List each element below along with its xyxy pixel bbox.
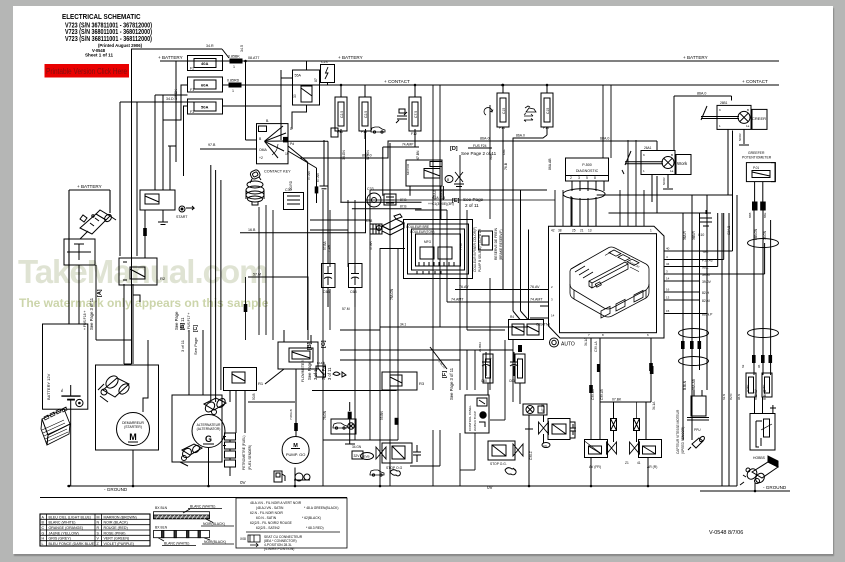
recirculation curl icon xyxy=(484,108,493,115)
battery isometric drawing xyxy=(41,407,70,445)
small pump icon xyxy=(331,128,341,137)
svg-text:1a: 1a xyxy=(670,169,674,173)
ECU right pin stubs and labels xyxy=(664,247,713,317)
wire into key left xyxy=(246,139,257,141)
capacitor C3 xyxy=(322,233,336,307)
wire hobbs drops xyxy=(683,195,741,486)
svg-text:M: M xyxy=(129,432,137,442)
fuse C15 #5 xyxy=(541,85,553,135)
svg-text:TakeManual.com: TakeManual.com xyxy=(18,253,267,290)
capacitor by coil xyxy=(570,424,576,435)
wire mid-left horizontals xyxy=(96,95,188,364)
svg-text:86A.AB: 86A.AB xyxy=(692,379,696,390)
svg-text:36A.R: 36A.R xyxy=(683,230,687,240)
svg-text:OMA: OMA xyxy=(259,148,267,152)
svg-text:14: 14 xyxy=(666,277,670,281)
svg-text:See Page: See Page xyxy=(174,311,179,330)
svg-text:67.AB: 67.AB xyxy=(316,173,320,182)
svg-text:BX BLN: BX BLN xyxy=(155,526,168,530)
svg-text:BATTERY 12V: BATTERY 12V xyxy=(46,373,51,400)
svg-text:1: 1 xyxy=(232,89,234,93)
svg-text:8: 8 xyxy=(602,333,604,337)
[E] see page label xyxy=(428,196,484,208)
inline connector ellipse right xyxy=(748,329,779,338)
svg-text:ROUGE (RED): ROUGE (RED) xyxy=(104,526,128,530)
svg-text:START: START xyxy=(176,215,188,219)
svg-text:86B.GN: 86B.GN xyxy=(754,228,758,240)
svg-text:C61: C61 xyxy=(509,379,515,383)
wire +BATTERY bus xyxy=(160,60,779,62)
svg-text:STOP O.G.: STOP O.G. xyxy=(490,462,507,466)
svg-text:D: D xyxy=(290,127,293,131)
safety contact box xyxy=(64,239,95,265)
relay box K7 xyxy=(406,160,443,220)
small labels near pot xyxy=(741,364,761,368)
svg-text:M: M xyxy=(97,515,100,519)
wire alternator ground xyxy=(208,448,210,486)
svg-text:H: H xyxy=(42,537,45,541)
fuse C7.5 #3 xyxy=(409,89,421,139)
relay K2 above pump xyxy=(265,330,318,384)
svg-text:21: 21 xyxy=(580,229,584,233)
svg-text:7: 7 xyxy=(588,333,590,337)
svg-text:74.AMT: 74.AMT xyxy=(451,298,464,302)
wire 74AMT xyxy=(447,298,549,303)
svg-text:32V: 32V xyxy=(354,454,361,458)
svg-text:S: S xyxy=(97,531,100,535)
svg-text:C39.LB: C39.LB xyxy=(600,389,604,400)
wire mid rails xyxy=(258,207,260,335)
svg-text:The watermark only appears on: The watermark only appears on this sampl… xyxy=(19,296,269,310)
svg-text:+ BATTERY: + BATTERY xyxy=(77,184,102,189)
wire pump top xyxy=(295,369,297,437)
svg-text:C6: C6 xyxy=(543,444,547,448)
svg-text:FUS F24: FUS F24 xyxy=(473,144,487,148)
svg-text:3: 3 xyxy=(578,176,580,180)
svg-text:C10: C10 xyxy=(698,233,704,237)
svg-text:76.AV: 76.AV xyxy=(530,285,540,289)
svg-text:CAPTEUR VITESSE MOTEUR: CAPTEUR VITESSE MOTEUR xyxy=(676,409,680,454)
svg-text:47.BN: 47.BN xyxy=(416,150,420,160)
svg-text:C2.5: C2.5 xyxy=(364,111,368,118)
svg-text:ORANGE (ORANGE): ORANGE (ORANGE) xyxy=(49,526,84,530)
svg-text:CREER: CREER xyxy=(752,116,766,121)
svg-text:0.85RD: 0.85RD xyxy=(227,79,240,83)
svg-text:See Page 3 of 11: See Page 3 of 11 xyxy=(89,297,94,330)
svg-text:34.GN: 34.GN xyxy=(352,445,362,449)
wire lower horizontals xyxy=(340,349,513,351)
X-circle box solenoid xyxy=(523,404,547,429)
wire F1 row to link xyxy=(223,84,230,86)
svg-text:- GROUND: - GROUND xyxy=(763,485,787,490)
svg-text:PPU: PPU xyxy=(694,428,701,432)
wire diag merge left of ECU xyxy=(513,138,529,320)
start relay cluster xyxy=(140,190,194,225)
wire left battery feed xyxy=(69,189,110,191)
car monitor box xyxy=(331,419,356,434)
svg-text:B: B xyxy=(259,137,262,141)
svg-text:5: 5 xyxy=(586,176,588,180)
svg-text:V: V xyxy=(97,537,100,541)
svg-text:BLEU CIEL (LIGHT BLUE): BLEU CIEL (LIGHT BLUE) xyxy=(49,515,92,519)
relay R2 xyxy=(119,258,166,295)
svg-text:CONTACT KEY: CONTACT KEY xyxy=(264,170,291,174)
wire solenoid to contact box xyxy=(80,231,88,239)
svg-text:3: 3 xyxy=(551,298,553,302)
diagonal wire to F xyxy=(430,347,447,370)
svg-text:F14: F14 xyxy=(499,126,505,130)
svg-text:R2: R2 xyxy=(160,276,166,281)
svg-text:B.: B. xyxy=(266,119,269,123)
svg-text:FLOWMETER: FLOWMETER xyxy=(301,360,305,382)
svg-text:R4: R4 xyxy=(510,315,514,319)
svg-text:K: K xyxy=(719,108,721,112)
svg-text:3 of 11: 3 of 11 xyxy=(327,367,332,380)
svg-text:77.B: 77.B xyxy=(459,243,463,250)
svg-text:40A: 40A xyxy=(201,61,208,66)
brake reservoir box xyxy=(479,227,504,260)
svg-text:26A1: 26A1 xyxy=(644,146,652,150)
svg-text:CONTROL PANEL: CONTROL PANEL xyxy=(468,405,472,431)
resistor RW2 xyxy=(762,373,772,397)
svg-text:See Page: See Page xyxy=(463,197,484,202)
wire 57M horizontal xyxy=(248,277,308,340)
svg-text:NOIR(BLACK): NOIR(BLACK) xyxy=(204,540,226,544)
svg-text:NOIR(BLACK): NOIR(BLACK) xyxy=(203,522,225,526)
svg-text:47.BR: 47.BR xyxy=(369,240,373,250)
svg-text:COULEUR(TON): COULEUR(TON) xyxy=(410,230,434,234)
svg-text:87.B: 87.B xyxy=(400,205,407,209)
wire starter top feed xyxy=(143,340,148,412)
svg-text:3 of 11: 3 of 11 xyxy=(180,339,185,352)
svg-text:V723 (S/N 368111001 - 36811200: V723 (S/N 368111001 - 368112000) xyxy=(65,36,152,43)
svg-text:See Page: See Page xyxy=(307,361,312,380)
starter box xyxy=(96,365,159,450)
solenoid AR R xyxy=(625,440,662,470)
svg-text:(4-WIRE POSITION): (4-WIRE POSITION) xyxy=(264,547,294,551)
svg-text:78A.GN: 78A.GN xyxy=(390,288,394,300)
svg-text:R75K: R75K xyxy=(762,384,766,392)
svg-text:L: L xyxy=(42,542,44,546)
greefer potentiometer xyxy=(742,151,775,218)
svg-text:+ BATTERY: + BATTERY xyxy=(338,55,363,60)
icons speed xyxy=(333,372,346,377)
svg-text:1a: 1a xyxy=(746,124,750,128)
svg-text:15: 15 xyxy=(666,309,670,313)
svg-text:* 68.3 RED): * 68.3 RED) xyxy=(306,526,324,530)
wire +CONTACT bus xyxy=(241,84,779,86)
legend top rule xyxy=(40,497,347,499)
relay R3 box xyxy=(382,372,425,390)
svg-text:86A-0: 86A-0 xyxy=(362,154,372,158)
svg-text:25: 25 xyxy=(572,229,576,233)
alternator circle G xyxy=(192,415,225,448)
svg-text:1: 1 xyxy=(643,169,645,173)
svg-text:AUTO: AUTO xyxy=(561,342,575,348)
svg-text:BLANC (WHITE): BLANC (WHITE) xyxy=(164,542,189,546)
svg-text:C7.5: C7.5 xyxy=(414,111,418,118)
svg-text:+ BATTERY: + BATTERY xyxy=(683,55,708,60)
svg-text:Sheet 1 of 11: Sheet 1 of 11 xyxy=(85,53,114,58)
snail icon xyxy=(505,468,516,475)
svg-text:Work: Work xyxy=(677,161,688,166)
svg-text:ROSE (PINK): ROSE (PINK) xyxy=(104,531,126,535)
ground stub mid xyxy=(345,402,355,444)
wire mid drops xyxy=(529,352,651,487)
fuse F2 40A xyxy=(188,56,223,71)
svg-text:N: N xyxy=(97,521,100,525)
svg-text:[A]: [A] xyxy=(97,289,103,297)
wire key to capacitor xyxy=(288,140,328,142)
ECU inner frame xyxy=(560,234,657,333)
svg-text:AR (R): AR (R) xyxy=(647,465,657,469)
svg-text:C60: C60 xyxy=(481,379,487,383)
svg-text:* 48.A GREEN(BLACK): * 48.A GREEN(BLACK) xyxy=(304,506,338,510)
svg-text:1: 1 xyxy=(650,229,652,233)
wire 86A.0 to creer lamp xyxy=(674,92,732,152)
wire A drop xyxy=(95,265,97,340)
svg-text:V723 (S/N 368011001 - 36801200: V723 (S/N 368011001 - 368012000) xyxy=(65,29,152,36)
svg-text:B: B xyxy=(42,521,45,525)
starter motor circle M xyxy=(117,413,150,446)
svg-text:3 of 11: 3 of 11 xyxy=(180,317,185,330)
svg-text:GREEFER: GREEFER xyxy=(748,151,765,155)
svg-text:GRIS (GREY): GRIS (GREY) xyxy=(49,537,71,541)
svg-text:C15: C15 xyxy=(502,108,506,114)
svg-text:F19: F19 xyxy=(361,130,367,134)
svg-text:38: 38 xyxy=(558,229,562,233)
wire battery bus drop to key xyxy=(245,61,247,140)
svg-text:JAUNE (YELLOW): JAUNE (YELLOW) xyxy=(49,531,79,535)
svg-text:F1: F1 xyxy=(190,88,194,92)
svg-text:A: A xyxy=(42,515,45,519)
horn isometric icon xyxy=(740,456,778,485)
svg-text:+: + xyxy=(518,357,520,361)
svg-text:MFG: MFG xyxy=(424,240,432,244)
contact key switch box xyxy=(257,119,295,174)
fusible link on contact bus xyxy=(227,79,241,94)
svg-text:86A.0: 86A.0 xyxy=(697,92,706,96)
wire ground bus xyxy=(67,485,737,487)
svg-text:82.H: 82.H xyxy=(702,291,710,295)
svg-text:57.M: 57.M xyxy=(342,307,350,311)
svg-text:86A-0: 86A-0 xyxy=(480,137,490,141)
fusible link to R2 xyxy=(143,228,147,236)
fuse F1 60A xyxy=(188,77,223,92)
svg-text:455A.B: 455A.B xyxy=(440,190,444,200)
svg-text:76.AV: 76.AV xyxy=(459,285,469,289)
svg-text:COULEUR B FIBER COLOR(F): COULEUR B FIBER COLOR(F) xyxy=(473,227,477,272)
svg-text:Z1: Z1 xyxy=(625,461,629,465)
svg-text:X08: X08 xyxy=(240,537,246,541)
striped wire sample 2 xyxy=(154,526,235,546)
svg-text:[B]: [B] xyxy=(307,342,313,350)
E14 box xyxy=(316,361,326,377)
svg-text:HOBBS: HOBBS xyxy=(753,456,766,460)
svg-text:C6L: C6L xyxy=(502,149,506,155)
[F] see page label xyxy=(442,367,454,400)
svg-text:See Page: See Page xyxy=(193,337,198,355)
svg-text:C15: C15 xyxy=(546,108,550,114)
svg-text:R1: R1 xyxy=(258,381,264,386)
svg-text:C30: C30 xyxy=(285,188,292,192)
svg-text:34.1: 34.1 xyxy=(400,323,406,327)
svg-text:82.M: 82.M xyxy=(702,299,710,303)
tiny box 32V xyxy=(352,451,363,459)
[B] see page vertical label xyxy=(301,342,318,382)
svg-text:F12: F12 xyxy=(411,132,417,136)
svg-text:42: 42 xyxy=(551,229,555,233)
[D] see page label xyxy=(450,144,497,156)
svg-text:[F]: [F] xyxy=(442,371,448,378)
solenoid assembly far left xyxy=(488,441,523,466)
svg-text:B: B xyxy=(447,178,450,182)
legend notes block xyxy=(236,498,347,551)
bowtie valve main xyxy=(539,415,549,434)
svg-text:BLEU FONCE (DARK BLUE): BLEU FONCE (DARK BLUE) xyxy=(49,542,96,546)
svg-text:Pd: Pd xyxy=(290,142,294,146)
wire F3 row right xyxy=(223,106,282,140)
svg-text:MARRON (BROWN): MARRON (BROWN) xyxy=(104,515,137,519)
pump motor circle xyxy=(282,437,309,464)
wire drops from contact bus xyxy=(341,85,547,97)
svg-text:C2.5: C2.5 xyxy=(340,111,344,118)
svg-text:08.AT7: 08.AT7 xyxy=(248,56,259,60)
svg-text:F2: F2 xyxy=(190,67,194,71)
wire battery to ground xyxy=(70,400,72,486)
coil box xyxy=(548,419,575,440)
svg-text:C66: C66 xyxy=(323,290,330,294)
svg-text:62.N: 62.N xyxy=(722,394,726,400)
svg-text:BOBCAT: BOBCAT xyxy=(629,260,641,269)
svg-text:E14: E14 xyxy=(317,361,323,365)
svg-text:34: 34 xyxy=(666,262,670,266)
svg-text:34.1A: 34.1A xyxy=(652,401,656,410)
svg-text:86A.AB: 86A.AB xyxy=(548,158,552,170)
right rail labels xyxy=(683,228,767,400)
svg-text:VERT (GREEN): VERT (GREEN) xyxy=(104,537,130,541)
horn symbol xyxy=(698,210,712,237)
svg-text:0V: 0V xyxy=(487,485,494,490)
connector terminals black xyxy=(649,341,772,371)
capacitor by valve xyxy=(413,445,421,462)
hobbs hourmeter box xyxy=(750,397,776,450)
svg-text:0.85BK: 0.85BK xyxy=(228,55,240,59)
svg-text:RESERVE DE FREIN: RESERVE DE FREIN xyxy=(494,227,498,260)
svg-text:BLANC (WHITE): BLANC (WHITE) xyxy=(49,521,76,525)
wire pump ground xyxy=(294,468,296,487)
wire long rails mid-left xyxy=(145,95,221,402)
svg-text:1: 1 xyxy=(719,124,721,128)
svg-text:62.N - FIL NOIR NOIR: 62.N - FIL NOIR NOIR xyxy=(250,511,283,515)
svg-text:2 of 11: 2 of 11 xyxy=(465,203,479,208)
svg-text:13: 13 xyxy=(666,296,670,300)
seat heater icon xyxy=(524,106,536,122)
wire fuse bottom drops xyxy=(340,129,547,290)
hourglass symbol 1 xyxy=(611,419,617,431)
svg-text:475A.B: 475A.B xyxy=(433,190,437,200)
fusible link on battery bus xyxy=(228,55,242,70)
svg-text:2: 2 xyxy=(570,176,572,180)
alternator iso top xyxy=(204,398,226,410)
wire starter down to ground xyxy=(132,450,134,486)
right rails xyxy=(646,176,771,440)
svg-text:76.B: 76.B xyxy=(504,162,508,170)
wire 34.1 long xyxy=(380,323,550,328)
svg-text:K: K xyxy=(643,153,645,157)
svg-text:86A.0: 86A.0 xyxy=(516,134,525,138)
wire 57.M mid xyxy=(380,248,404,250)
starter isometric xyxy=(103,378,129,397)
svg-text:55.BN: 55.BN xyxy=(380,410,384,420)
battery cell symbol xyxy=(60,385,83,407)
assorted tiny wire labels xyxy=(252,153,493,449)
iso connector icon xyxy=(377,214,405,235)
svg-text:26B1: 26B1 xyxy=(720,101,728,105)
svg-text:+ CONTACT: + CONTACT xyxy=(384,79,410,84)
svg-text:VIOLET (PURPLE): VIOLET (PURPLE) xyxy=(104,542,135,546)
fuse C15 #4 xyxy=(497,85,509,135)
ECU left pin stubs xyxy=(526,285,555,318)
svg-text:74.AMT: 74.AMT xyxy=(530,298,543,302)
order lamp switch assembly xyxy=(701,101,767,235)
color code table xyxy=(40,514,150,546)
svg-text:P.01: P.01 xyxy=(753,166,759,170)
svg-text:34.D: 34.D xyxy=(166,97,174,101)
stub corner joins xyxy=(683,243,765,314)
wire key diagonals xyxy=(288,146,308,162)
svg-text:30: 30 xyxy=(293,94,297,98)
svg-text:[C]: [C] xyxy=(193,325,199,332)
relay C25 box xyxy=(293,70,320,105)
svg-text:(BRAKE RESERV.F): (BRAKE RESERV.F) xyxy=(499,230,503,260)
svg-text:+ FUS F17 +: + FUS F17 + xyxy=(187,313,191,332)
svg-text:78.GN: 78.GN xyxy=(323,410,327,420)
starter solenoid isometric icon xyxy=(80,210,116,234)
fusible links on verticals xyxy=(348,345,654,425)
svg-text:62: 62 xyxy=(741,364,745,368)
wire horn ground xyxy=(754,483,756,491)
C6 connector oval xyxy=(542,443,550,449)
svg-text:4: 4 xyxy=(666,255,668,259)
svg-text:62(2/3 - FIL NOIR/2 ROUGE: 62(2/3 - FIL NOIR/2 ROUGE xyxy=(250,521,293,525)
svg-text:34.R: 34.R xyxy=(206,44,214,48)
fuse F3 50A xyxy=(188,99,223,114)
glow plug box with bolt xyxy=(321,60,335,83)
svg-text:07.BK: 07.BK xyxy=(612,398,622,402)
relay block under ECU left xyxy=(509,315,544,340)
ECU isometric module drawing xyxy=(570,247,649,318)
wire upper-mid horizontals xyxy=(310,219,370,221)
wire 76AV xyxy=(455,285,549,290)
svg-text:C: C xyxy=(42,526,45,530)
svg-text:8: 8 xyxy=(594,176,596,180)
svg-text:NOIR: NOIR xyxy=(738,133,742,141)
svg-text:B+: B+ xyxy=(60,388,64,392)
B tag oval xyxy=(445,172,464,187)
svg-text:97.B: 97.B xyxy=(208,143,216,147)
svg-text:62(2/3 - SATIN2: 62(2/3 - SATIN2 xyxy=(256,526,280,530)
fuse vertical pair mid-bottom xyxy=(478,342,525,404)
wire C25 connections xyxy=(281,70,293,78)
wire ground bus right xyxy=(700,490,790,492)
svg-text:+ CONTACT: + CONTACT xyxy=(742,79,768,84)
fuse C2.5 #2 xyxy=(359,89,371,139)
svg-text:See Page 3 of 11: See Page 3 of 11 xyxy=(449,367,454,400)
hourmeter symbol xyxy=(367,187,396,207)
svg-text:C39.LA: C39.LA xyxy=(591,388,595,400)
wire 07.BK horizontal xyxy=(600,352,651,402)
